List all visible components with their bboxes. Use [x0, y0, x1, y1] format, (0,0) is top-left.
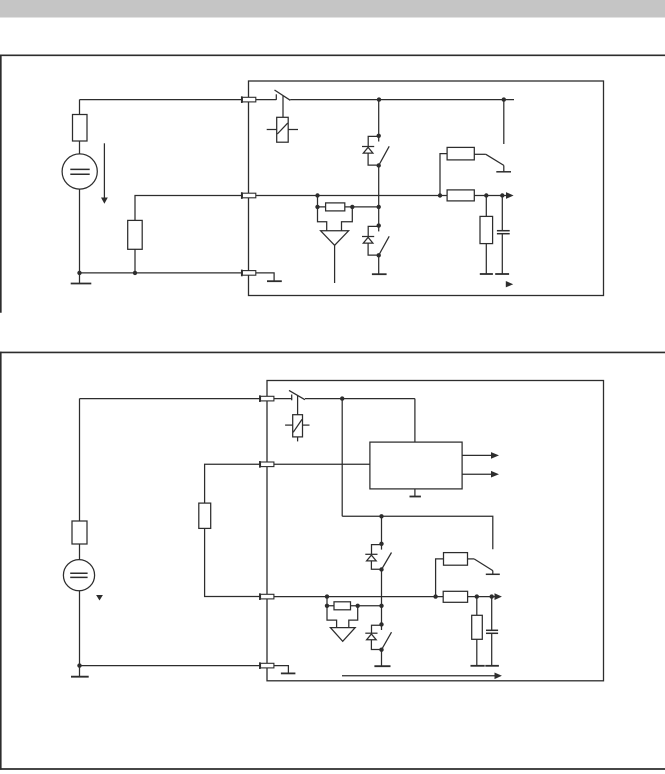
output arrow: [495, 593, 502, 600]
wire bottom: [80, 665, 260, 667]
pin3 ground stub: [256, 273, 282, 281]
wire: [305, 398, 415, 400]
node dot: [377, 223, 381, 227]
node dot: [475, 594, 479, 598]
output arrow bottom: [506, 281, 513, 287]
pin 3: [260, 593, 274, 600]
switch S7: [382, 632, 392, 650]
ground: [471, 665, 485, 667]
wire top left: [80, 99, 242, 101]
wire main vertical: [381, 570, 383, 625]
switch S1: [256, 90, 290, 100]
wire bus to output: [474, 195, 506, 197]
ground: [480, 273, 493, 275]
node dot: [500, 193, 504, 197]
wire top to right: [379, 99, 514, 101]
wire to block: [414, 399, 416, 443]
ground: [374, 650, 390, 667]
node dot: [379, 514, 383, 518]
capacitor C2: [486, 597, 498, 666]
node dot: [433, 594, 437, 598]
resistor R2: [128, 220, 143, 273]
node dot: [502, 97, 506, 101]
wire source to bottom: [79, 591, 81, 666]
IC boundary box U3: [267, 381, 604, 681]
output arrow: [462, 452, 499, 459]
node dot: [133, 271, 137, 275]
capacitor C1: [497, 196, 510, 274]
marker triangle: [96, 595, 103, 601]
bottom output arrow: [342, 673, 502, 680]
output arrow: [506, 192, 514, 199]
wire main vertical: [378, 100, 380, 136]
node dot: [77, 271, 81, 275]
resistor R1 (series fuse): [73, 100, 88, 155]
node dot: [77, 663, 81, 667]
wire vertical from top: [341, 399, 343, 517]
node dot: [379, 542, 383, 546]
pin 1: [242, 96, 256, 103]
zener diode D1: [362, 136, 379, 166]
wire main vertical: [381, 516, 383, 544]
relay coil K1: [267, 96, 298, 143]
ground: [71, 273, 92, 284]
node dot: [379, 567, 383, 571]
wire pin2 to block: [274, 463, 370, 465]
block ground: [410, 489, 421, 496]
output arrow: [462, 471, 499, 478]
wire feedback row: [318, 196, 326, 207]
switch S4: [486, 154, 511, 172]
resistor R6: [480, 196, 493, 275]
pin 1: [260, 395, 274, 402]
current direction arrow: [101, 143, 108, 203]
node dot: [377, 134, 381, 138]
wire: [290, 99, 379, 101]
node dot: [379, 648, 383, 652]
node dot: [379, 604, 383, 608]
wire: [351, 605, 382, 607]
wire bus to output: [468, 596, 495, 598]
resistor R4: [440, 147, 486, 195]
node dot: [490, 594, 494, 598]
ground: [485, 665, 499, 667]
zener diode D2: [362, 226, 379, 256]
node dot: [377, 253, 381, 257]
node dot: [340, 396, 344, 400]
wire pin2 to R2: [135, 196, 242, 221]
node dot: [377, 97, 381, 101]
wire pin2 branch: [205, 464, 260, 503]
switch S8: [474, 559, 500, 574]
node dot: [484, 193, 488, 197]
wire bottom: [80, 272, 242, 274]
wire pin3 bus: [274, 596, 443, 598]
wire bus1: [342, 516, 493, 549]
ground: [71, 666, 89, 677]
control block U4: [370, 442, 462, 489]
node dot: [356, 604, 360, 608]
wire main vertical: [378, 166, 380, 226]
resistor R10: [436, 553, 475, 597]
switch S2: [379, 146, 390, 165]
node dot: [315, 193, 319, 197]
wire: [345, 206, 379, 208]
voltage source V1: [62, 154, 97, 189]
IC boundary box U1: [249, 81, 604, 296]
wire bus pin2: [256, 195, 447, 197]
ground: [495, 273, 509, 275]
resistor R7: [72, 399, 87, 560]
comparator U2: [318, 207, 353, 283]
wire feedback row: [327, 597, 334, 606]
ground: [372, 255, 387, 274]
resistor R9: [334, 602, 351, 610]
pin 2: [260, 461, 274, 468]
header gray bar: [0, 0, 665, 18]
zener diode D4: [365, 624, 381, 649]
node dot: [325, 604, 329, 608]
node dot: [377, 163, 381, 167]
resistor R8: [199, 503, 260, 596]
pin 3: [242, 270, 256, 277]
resistor R5: [447, 190, 474, 201]
zener diode D3: [365, 544, 381, 569]
voltage source V2: [63, 560, 94, 591]
node dot: [325, 594, 329, 598]
node dot: [438, 193, 442, 197]
wire drop to switch contact: [503, 100, 505, 144]
pin 4: [260, 662, 274, 669]
comparator U5: [327, 606, 358, 642]
switch S5: [274, 390, 305, 400]
switch S3: [379, 236, 390, 255]
switch S6: [382, 553, 392, 570]
node dot: [350, 205, 354, 209]
pin 2: [242, 192, 256, 199]
pin4 ground stub: [274, 666, 295, 674]
node dot: [377, 205, 381, 209]
wire top left: [80, 398, 260, 400]
node dot: [315, 205, 319, 209]
resistor R12: [472, 597, 483, 666]
resistor R3: [326, 203, 345, 211]
resistor R11: [443, 591, 467, 602]
relay coil K2: [285, 396, 309, 442]
node dot: [379, 622, 383, 626]
wire source to bottom: [79, 189, 81, 273]
